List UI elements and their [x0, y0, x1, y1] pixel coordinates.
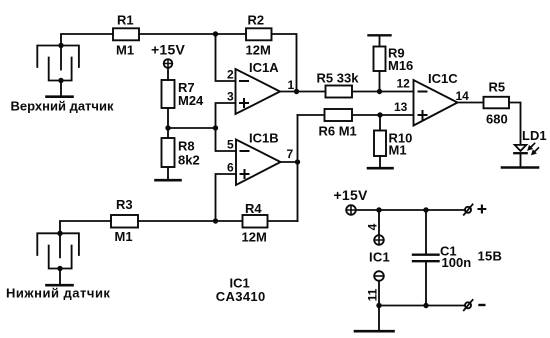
- wire pin 3 to pin 5: [216, 103, 237, 151]
- ground (under R8): [156, 179, 181, 182]
- resistor R5 680: [484, 80, 510, 127]
- resistor R7: [162, 80, 205, 108]
- wire R5 to pin 12: [352, 91, 414, 93]
- resistor R4: [242, 201, 268, 245]
- wire pin 6 to node B: [216, 174, 237, 221]
- svg-text:Нижний датчик: Нижний датчик: [6, 285, 110, 300]
- wire R5 to LED: [509, 103, 521, 145]
- svg-text:R6 M1: R6 M1: [319, 124, 357, 139]
- svg-text:CA3410: CA3410: [216, 289, 266, 304]
- resistor R10: [374, 131, 412, 158]
- resistor R9: [374, 46, 414, 74]
- op-amp IC1A: [236, 60, 281, 114]
- resistor R8: [162, 138, 200, 168]
- wire R8 to ground: [167, 167, 169, 179]
- svg-text:6: 6: [227, 161, 234, 175]
- svg-text:IC1: IC1: [369, 250, 390, 265]
- svg-text:4: 4: [366, 223, 380, 230]
- terminal - output: [464, 300, 485, 310]
- sensor B1 upper (Верхний датчик): [11, 43, 114, 114]
- node A junction: [213, 31, 218, 36]
- wire bottom rail: [379, 305, 464, 307]
- wire node A to pin 2: [216, 34, 236, 81]
- svg-text:IC1B: IC1B: [249, 131, 279, 146]
- node R7/R8 divider junction: [213, 125, 218, 130]
- svg-text:3: 3: [227, 90, 234, 104]
- power +15V terminal (top): [151, 42, 185, 68]
- svg-text:M1: M1: [116, 43, 134, 58]
- ground (under R10): [368, 167, 393, 170]
- wire R10 to ground: [379, 156, 381, 167]
- svg-text:5: 5: [227, 138, 234, 152]
- svg-text:M16: M16: [388, 58, 413, 73]
- resistor R6 M1: [319, 109, 357, 139]
- svg-text:IC1: IC1: [230, 275, 250, 290]
- wire upper sensor to R1: [61, 34, 113, 46]
- resistor R3: [111, 197, 138, 244]
- wire IC1A output row: [280, 91, 326, 93]
- wire R7 to R8: [167, 108, 169, 138]
- svg-text:R2: R2: [248, 13, 265, 28]
- node IC1A output junction: [294, 89, 299, 94]
- wire IC1C output to R5: [458, 102, 484, 104]
- op-amp IC1B: [236, 131, 281, 186]
- wire R4 to output column: [268, 220, 298, 222]
- svg-text:R5: R5: [489, 80, 506, 95]
- wire R1 to node A: [139, 33, 246, 35]
- resistor R2: [246, 13, 272, 58]
- resistor R5 33k: [317, 71, 360, 98]
- resistor R1: [113, 13, 139, 58]
- svg-text:R8: R8: [178, 139, 195, 154]
- svg-text:12: 12: [397, 77, 411, 91]
- svg-text:15В: 15В: [478, 249, 503, 264]
- node B junction: [213, 218, 218, 223]
- LED LD1: [514, 128, 546, 155]
- sensor B2 lower (Нижний датчик): [6, 231, 110, 301]
- svg-text:7: 7: [287, 147, 294, 161]
- wire +15V rail top: [356, 209, 465, 211]
- wire R2 to IC1A output: [272, 34, 297, 92]
- capacitor C1: [413, 210, 471, 306]
- IC1 pin 4 power terminal: [374, 235, 384, 245]
- wire rail to ground: [378, 306, 380, 331]
- ground (under LD1): [502, 166, 538, 169]
- svg-text:M1: M1: [115, 229, 133, 244]
- svg-text:11: 11: [366, 288, 380, 301]
- wire R6 to pin 13: [352, 114, 414, 116]
- wire output column to R6 and R4: [297, 115, 299, 221]
- wire LED to ground: [520, 154, 522, 166]
- wire R9 to pin12 row: [379, 71, 381, 92]
- wire lower sensor to R3: [60, 221, 111, 233]
- svg-text:IC1C: IC1C: [428, 71, 458, 86]
- IC1 pin 11 power terminal: [374, 271, 384, 281]
- ground (power): [355, 330, 394, 333]
- svg-text:1: 1: [288, 78, 295, 92]
- wire rail to R9: [379, 36, 381, 47]
- terminal + output: [464, 204, 486, 214]
- node C1 top: [423, 207, 428, 212]
- op-amp IC1C: [414, 71, 459, 126]
- label IC1 CA3410: [216, 275, 266, 304]
- node IC1B output junction: [295, 159, 300, 164]
- svg-text:13: 13: [394, 100, 408, 114]
- node C1 bottom: [423, 303, 428, 308]
- wire pin 4: [378, 210, 380, 235]
- svg-text:14: 14: [456, 89, 470, 103]
- svg-text:Верхний датчик: Верхний датчик: [11, 98, 114, 113]
- svg-text:IC1A: IC1A: [249, 60, 279, 75]
- svg-text:M24: M24: [178, 93, 204, 108]
- power +15V terminal (bottom): [334, 187, 368, 215]
- svg-text:R3: R3: [116, 197, 133, 212]
- junction R7/R8: [165, 125, 170, 130]
- wire divider to node: [168, 127, 216, 129]
- svg-text:LD1: LD1: [522, 128, 547, 143]
- node bottom rail junction: [376, 303, 381, 308]
- svg-text:2: 2: [227, 68, 234, 82]
- svg-text:680: 680: [486, 112, 508, 127]
- power rail bar above R9: [369, 34, 391, 36]
- svg-text:12M: 12M: [242, 230, 267, 245]
- svg-text:+15V: +15V: [151, 42, 185, 58]
- svg-text:R4: R4: [245, 201, 262, 216]
- wire node to R10: [379, 115, 381, 131]
- wire R3 to node B: [138, 220, 243, 222]
- wire pin 11 to bottom rail: [378, 281, 380, 306]
- svg-text:+15V: +15V: [334, 187, 368, 203]
- svg-text:R5 33k: R5 33k: [317, 71, 360, 86]
- svg-text:8k2: 8k2: [178, 153, 200, 168]
- node R9 junction: [377, 89, 382, 94]
- node pin4 branch: [376, 207, 381, 212]
- wire pin 13 row: [298, 114, 325, 116]
- wire IC1B output: [281, 161, 298, 163]
- svg-text:R1: R1: [117, 13, 134, 28]
- wire +15V to R7: [167, 68, 169, 80]
- node R10 junction: [377, 112, 382, 117]
- svg-text:M1: M1: [389, 143, 407, 158]
- svg-text:12M: 12M: [246, 43, 271, 58]
- svg-text:100n: 100n: [442, 255, 472, 270]
